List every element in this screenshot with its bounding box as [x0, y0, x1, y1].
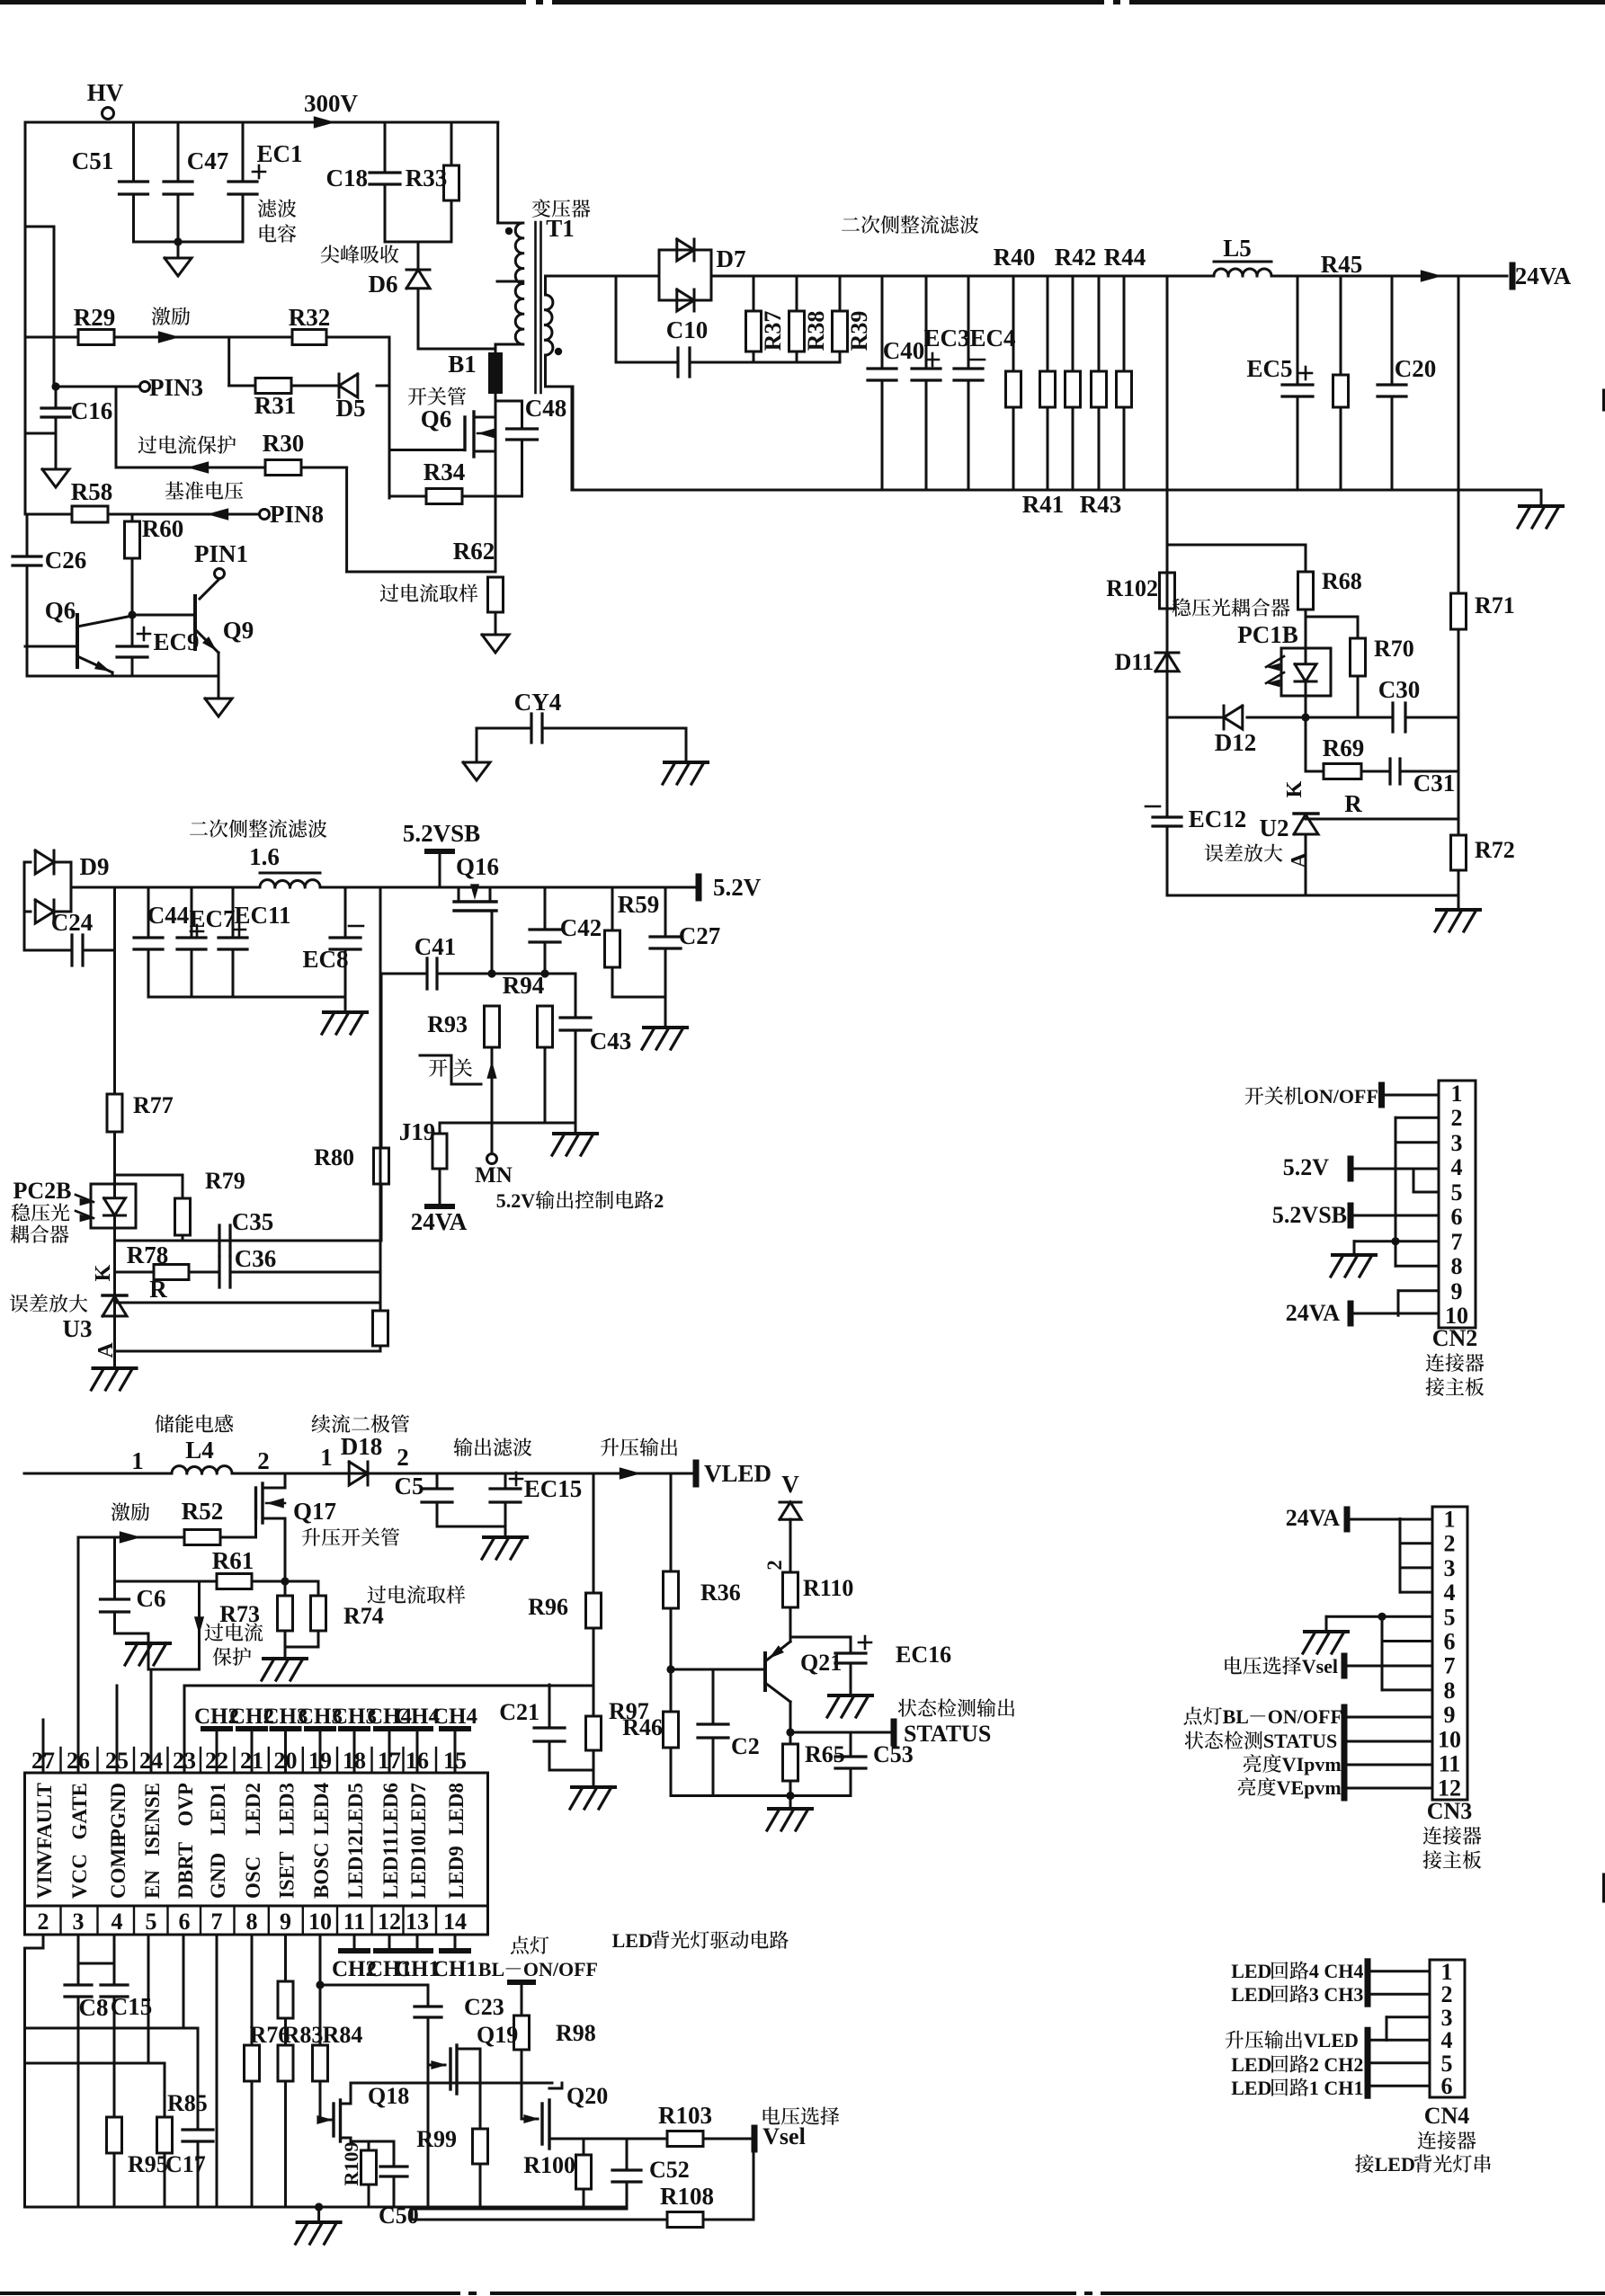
svg-text:R72: R72 — [1475, 837, 1515, 863]
svg-text:CN3: CN3 — [1427, 1798, 1473, 1824]
svg-text:2: 2 — [397, 1444, 409, 1471]
svg-text:5.2V: 5.2V — [713, 874, 762, 901]
svg-text:LED: LED — [1231, 2077, 1271, 2099]
svg-text:C26: C26 — [45, 547, 87, 574]
svg-text:R70: R70 — [1374, 636, 1414, 662]
svg-text:C20: C20 — [1395, 355, 1437, 382]
svg-text:VEpvm: VEpvm — [1277, 1776, 1342, 1799]
svg-text:HV: HV — [87, 79, 124, 106]
svg-text:LED: LED — [1375, 2153, 1415, 2176]
svg-text:C24: C24 — [51, 909, 94, 936]
svg-text:C15: C15 — [111, 1993, 153, 2020]
svg-text:D18: D18 — [341, 1433, 383, 1460]
svg-text:BL: BL — [478, 1958, 504, 1980]
svg-text:VLED: VLED — [1304, 2029, 1359, 2051]
svg-text:U2: U2 — [1260, 814, 1289, 841]
svg-text:CH1: CH1 — [432, 1957, 477, 1981]
svg-text:C48: C48 — [525, 395, 567, 422]
svg-text:PIN3: PIN3 — [149, 374, 203, 401]
svg-text:LED5: LED5 — [344, 1783, 367, 1836]
svg-text:7: 7 — [1451, 1229, 1463, 1255]
svg-text:24VA: 24VA — [1286, 1300, 1340, 1326]
svg-text:L5: L5 — [1223, 235, 1252, 262]
svg-text:C47: C47 — [187, 147, 229, 174]
svg-text:LED7: LED7 — [407, 1783, 430, 1836]
svg-text:3: 3 — [1444, 1555, 1456, 1581]
svg-text:5.2V: 5.2V — [496, 1189, 536, 1212]
svg-text:5.2VSB: 5.2VSB — [1272, 1202, 1347, 1228]
svg-text:1: 1 — [1444, 1507, 1456, 1533]
svg-text:J19: J19 — [399, 1118, 436, 1145]
svg-text:R33: R33 — [406, 165, 448, 191]
svg-text:5: 5 — [146, 1909, 157, 1935]
svg-text:R79: R79 — [205, 1168, 245, 1194]
svg-text:Q19: Q19 — [477, 2022, 518, 2048]
svg-text:9: 9 — [1444, 1702, 1456, 1728]
svg-text:U3: U3 — [63, 1315, 93, 1342]
svg-text:C44: C44 — [147, 902, 190, 929]
svg-text:MN: MN — [475, 1163, 513, 1188]
svg-text:EC4: EC4 — [969, 325, 1015, 352]
svg-text:C35: C35 — [232, 1208, 274, 1235]
svg-text:R65: R65 — [805, 1741, 845, 1767]
svg-text:LED: LED — [1231, 1983, 1271, 2006]
svg-text:R94: R94 — [503, 972, 545, 999]
svg-text:Q16: Q16 — [456, 853, 499, 880]
svg-text:BL: BL — [1223, 1705, 1249, 1728]
svg-text:C40: C40 — [883, 337, 925, 364]
svg-text:LED6: LED6 — [379, 1783, 402, 1836]
svg-text:300V: 300V — [304, 90, 359, 117]
svg-text:EN: EN — [141, 1870, 164, 1899]
svg-text:6: 6 — [1444, 1629, 1456, 1655]
svg-text:13: 13 — [406, 1909, 429, 1935]
svg-text:R74: R74 — [343, 1603, 384, 1629]
svg-text:R44: R44 — [1104, 244, 1146, 271]
svg-text:ON/OFF: ON/OFF — [1304, 1085, 1378, 1108]
svg-text:ISET: ISET — [276, 1852, 299, 1899]
svg-text:1: 1 — [1451, 1081, 1463, 1107]
svg-text:LED: LED — [1231, 2053, 1271, 2076]
svg-text:EC15: EC15 — [524, 1475, 583, 1502]
svg-text:STATUS: STATUS — [904, 1721, 991, 1747]
svg-text:8: 8 — [246, 1909, 258, 1935]
svg-text:R78: R78 — [127, 1241, 169, 1268]
svg-text:4: 4 — [111, 1909, 123, 1935]
svg-text:2: 2 — [1444, 1531, 1456, 1557]
svg-text:1 CH1: 1 CH1 — [1309, 2077, 1364, 2099]
svg-text:LED: LED — [612, 1929, 653, 1952]
svg-text:K: K — [1283, 780, 1306, 797]
svg-text:EC9: EC9 — [153, 628, 199, 655]
svg-text:R103: R103 — [658, 2102, 712, 2129]
svg-text:1: 1 — [320, 1444, 333, 1471]
svg-text:12: 12 — [378, 1909, 401, 1935]
svg-text:CY4: CY4 — [514, 689, 562, 716]
svg-text:C27: C27 — [679, 922, 721, 949]
svg-text:V: V — [781, 1471, 799, 1498]
svg-text:PC2B: PC2B — [13, 1178, 72, 1204]
svg-text:4: 4 — [1451, 1154, 1463, 1180]
svg-text:T1: T1 — [546, 215, 575, 242]
svg-text:C36: C36 — [235, 1245, 277, 1272]
svg-text:EC1: EC1 — [256, 140, 302, 167]
svg-text:2: 2 — [38, 1909, 49, 1935]
svg-text:C17: C17 — [165, 2151, 206, 2177]
svg-text:VIN: VIN — [33, 1860, 56, 1899]
svg-text:D11: D11 — [1115, 649, 1154, 675]
svg-text:5: 5 — [1451, 1179, 1463, 1206]
svg-text:Q20: Q20 — [566, 2083, 608, 2109]
svg-text:EC12: EC12 — [1189, 805, 1247, 832]
svg-text:OSC: OSC — [242, 1856, 264, 1899]
svg-text:LED12: LED12 — [344, 1836, 367, 1899]
svg-text:R77: R77 — [133, 1092, 174, 1118]
svg-text:Q17: Q17 — [293, 1498, 336, 1525]
svg-text:R: R — [149, 1276, 167, 1303]
svg-text:EC11: EC11 — [234, 902, 290, 929]
svg-text:R109: R109 — [340, 2142, 362, 2186]
svg-text:C8: C8 — [79, 1994, 109, 2021]
svg-text:R36: R36 — [700, 1580, 741, 1606]
svg-text:D9: D9 — [80, 853, 110, 880]
svg-text:C42: C42 — [560, 914, 602, 941]
svg-text:7: 7 — [1444, 1653, 1456, 1679]
svg-text:R42: R42 — [1055, 244, 1097, 271]
svg-text:VCC: VCC — [68, 1854, 91, 1899]
svg-text:C23: C23 — [464, 1994, 504, 2020]
svg-text:L4: L4 — [185, 1437, 214, 1464]
svg-text:VLED: VLED — [704, 1460, 771, 1487]
svg-text:R40: R40 — [994, 244, 1036, 271]
svg-text:4 CH4: 4 CH4 — [1309, 1960, 1364, 1982]
svg-text:R41: R41 — [1022, 491, 1065, 518]
svg-text:LED3: LED3 — [276, 1783, 299, 1836]
svg-text:R73: R73 — [219, 1601, 260, 1627]
svg-text:R59: R59 — [618, 891, 660, 918]
svg-text:10: 10 — [1438, 1726, 1461, 1752]
svg-text:LED4: LED4 — [310, 1783, 333, 1836]
svg-text:LED2: LED2 — [242, 1783, 264, 1836]
svg-text:R80: R80 — [314, 1144, 354, 1170]
svg-text:3: 3 — [73, 1909, 85, 1935]
svg-text:PIN8: PIN8 — [270, 501, 324, 528]
svg-text:C30: C30 — [1378, 676, 1421, 703]
svg-text:4: 4 — [1444, 1580, 1456, 1606]
svg-text:Q6: Q6 — [45, 597, 76, 624]
svg-text:8: 8 — [1444, 1678, 1456, 1704]
svg-text:C16: C16 — [71, 397, 113, 424]
svg-text:3 CH3: 3 CH3 — [1309, 1983, 1364, 2006]
svg-text:R46: R46 — [622, 1714, 663, 1740]
svg-text:CN2: CN2 — [1432, 1325, 1478, 1351]
svg-text:R31: R31 — [254, 392, 297, 419]
svg-text:Vsel: Vsel — [762, 2123, 806, 2149]
svg-text:Q18: Q18 — [368, 2083, 409, 2109]
svg-text:24VA: 24VA — [1515, 263, 1572, 289]
svg-text:R98: R98 — [556, 2020, 596, 2046]
svg-text:LED10: LED10 — [407, 1836, 430, 1899]
svg-text:ON/OFF: ON/OFF — [523, 1958, 598, 1980]
svg-text:EC8: EC8 — [302, 946, 348, 973]
svg-text:EC3: EC3 — [923, 325, 969, 352]
svg-text:R68: R68 — [1322, 568, 1362, 594]
svg-text:R61: R61 — [212, 1547, 254, 1574]
svg-text:2: 2 — [763, 1560, 786, 1571]
svg-text:BOSC: BOSC — [310, 1842, 333, 1899]
svg-text:VIpvm: VIpvm — [1282, 1753, 1342, 1775]
svg-text:R29: R29 — [74, 304, 116, 331]
svg-text:R60: R60 — [142, 515, 184, 542]
svg-text:C52: C52 — [649, 2157, 690, 2183]
svg-text:R43: R43 — [1080, 491, 1122, 518]
svg-text:C6: C6 — [137, 1585, 166, 1612]
svg-text:COMP: COMP — [107, 1836, 129, 1899]
svg-text:R93: R93 — [427, 1011, 468, 1037]
svg-text:2: 2 — [654, 1189, 664, 1212]
svg-text:C51: C51 — [72, 147, 114, 174]
svg-text:C53: C53 — [873, 1741, 914, 1767]
svg-text:R95: R95 — [128, 2151, 168, 2177]
svg-text:26: 26 — [67, 1748, 90, 1774]
svg-text:R45: R45 — [1321, 251, 1363, 278]
svg-text:R34: R34 — [424, 458, 466, 485]
svg-text:PIN1: PIN1 — [194, 540, 248, 567]
svg-text:11: 11 — [343, 1909, 366, 1935]
svg-text:EC16: EC16 — [896, 1642, 951, 1668]
svg-text:11: 11 — [1439, 1751, 1461, 1777]
svg-text:6: 6 — [1451, 1204, 1463, 1230]
svg-text:R96: R96 — [528, 1594, 568, 1620]
svg-text:LED1: LED1 — [207, 1783, 229, 1836]
svg-text:9: 9 — [280, 1909, 291, 1935]
svg-text:C21: C21 — [499, 1699, 539, 1725]
svg-text:ISENSE: ISENSE — [141, 1783, 164, 1856]
svg-text:5.2VSB: 5.2VSB — [403, 820, 480, 847]
svg-text:R: R — [1344, 790, 1362, 817]
svg-text:DBRT: DBRT — [174, 1842, 197, 1899]
svg-text:LED11: LED11 — [379, 1837, 402, 1899]
svg-text:3: 3 — [1451, 1130, 1463, 1156]
svg-text:EC5: EC5 — [1246, 355, 1292, 382]
svg-text:R62: R62 — [453, 538, 495, 565]
svg-text:R30: R30 — [263, 430, 305, 457]
svg-text:Q9: Q9 — [223, 617, 254, 644]
svg-text:R108: R108 — [660, 2183, 714, 2210]
svg-text:14: 14 — [443, 1909, 467, 1935]
svg-text:PGND: PGND — [107, 1783, 129, 1841]
svg-text:LED: LED — [1231, 1960, 1271, 1982]
svg-text:GATE: GATE — [68, 1783, 91, 1839]
svg-text:D12: D12 — [1215, 729, 1257, 756]
svg-text:R38: R38 — [803, 311, 829, 352]
svg-text:A: A — [1288, 852, 1311, 868]
svg-text:ON/OFF: ON/OFF — [1268, 1705, 1342, 1728]
svg-text:10: 10 — [308, 1909, 332, 1935]
svg-text:R102: R102 — [1106, 575, 1158, 601]
svg-text:5.2V: 5.2V — [1283, 1154, 1330, 1180]
svg-text:R39: R39 — [846, 311, 872, 352]
svg-text:C5: C5 — [395, 1473, 424, 1500]
svg-text:K: K — [92, 1264, 115, 1281]
svg-text:R58: R58 — [71, 478, 113, 505]
svg-text:R110: R110 — [803, 1575, 853, 1601]
svg-text:LED9: LED9 — [445, 1846, 468, 1899]
svg-text:C31: C31 — [1413, 770, 1456, 796]
svg-text:24VA: 24VA — [1286, 1505, 1340, 1531]
svg-text:C18: C18 — [326, 165, 369, 191]
svg-text:GND: GND — [207, 1853, 229, 1899]
svg-text:D7: D7 — [717, 245, 746, 272]
svg-text:8: 8 — [1451, 1253, 1463, 1279]
svg-text:CN4: CN4 — [1424, 2103, 1470, 2129]
svg-text:R32: R32 — [289, 304, 331, 331]
svg-text:6: 6 — [179, 1909, 191, 1935]
svg-text:PC1B: PC1B — [1237, 621, 1298, 648]
svg-text:LED8: LED8 — [445, 1783, 468, 1836]
svg-text:R37: R37 — [760, 311, 786, 352]
svg-text:5: 5 — [1444, 1604, 1456, 1630]
svg-text:2: 2 — [257, 1447, 270, 1474]
svg-text:R52: R52 — [182, 1498, 224, 1525]
svg-text:R69: R69 — [1323, 734, 1365, 761]
svg-text:STATUS: STATUS — [1263, 1730, 1337, 1752]
svg-text:24VA: 24VA — [411, 1208, 468, 1235]
svg-text:1: 1 — [131, 1447, 144, 1474]
svg-text:D5: D5 — [336, 395, 366, 422]
svg-text:R85: R85 — [167, 2090, 208, 2116]
svg-text:B1: B1 — [448, 351, 477, 378]
svg-text:R100: R100 — [523, 2152, 575, 2178]
svg-text:C41: C41 — [415, 933, 457, 960]
svg-text:2 CH2: 2 CH2 — [1309, 2053, 1364, 2076]
svg-text:D6: D6 — [369, 271, 398, 298]
svg-text:Vsel: Vsel — [1302, 1655, 1338, 1678]
svg-text:Q6: Q6 — [421, 405, 452, 432]
svg-text:OVP: OVP — [174, 1783, 197, 1827]
svg-text:1.6: 1.6 — [249, 843, 280, 870]
svg-text:2: 2 — [1451, 1105, 1463, 1131]
svg-text:C43: C43 — [590, 1028, 632, 1055]
svg-text:R71: R71 — [1475, 592, 1515, 618]
svg-text:C2: C2 — [731, 1733, 760, 1759]
svg-text:CH4: CH4 — [432, 1704, 478, 1729]
svg-text:C10: C10 — [666, 316, 709, 343]
svg-text:R99: R99 — [416, 2126, 457, 2152]
svg-text:9: 9 — [1451, 1278, 1463, 1304]
svg-text:7: 7 — [211, 1909, 223, 1935]
svg-text:6: 6 — [1441, 2073, 1453, 2099]
svg-text:VFAULT: VFAULT — [33, 1783, 56, 1864]
